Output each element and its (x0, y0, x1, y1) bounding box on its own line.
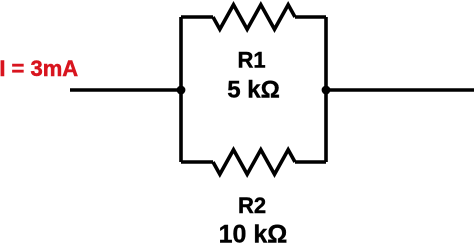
svg-text:10 kΩ: 10 kΩ (219, 220, 288, 243)
resistor R1 (213, 5, 295, 30)
svg-text:R2: R2 (238, 193, 266, 218)
node B (right junction) (322, 86, 331, 95)
wire left lead (70, 88, 181, 92)
node A (left junction) (177, 86, 186, 95)
wire right lead (326, 88, 474, 92)
wire bottom left segment (181, 160, 213, 164)
resistor R2 (213, 150, 295, 175)
wire bottom right segment (295, 160, 326, 164)
wire top right segment (295, 15, 326, 19)
svg-text:5 kΩ: 5 kΩ (227, 76, 280, 103)
svg-text:R1: R1 (237, 48, 265, 73)
wire right vertical branch (324, 17, 328, 162)
svg-text:I = 3mA: I = 3mA (0, 56, 78, 81)
wire left vertical branch (179, 17, 183, 162)
wire top left segment (181, 15, 213, 19)
